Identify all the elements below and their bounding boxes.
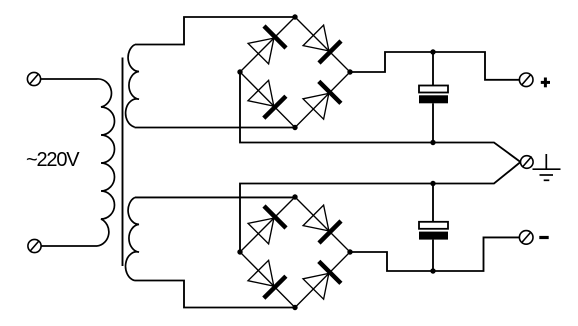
wire secondary2 top to bridge2 top (135, 196, 295, 198)
wire capacitor C2 bottom lead (432, 240, 434, 271)
terminal J4 (ground output) (521, 156, 534, 169)
bridge2 diamond edges (240, 197, 350, 308)
node bridge1 left (237, 69, 242, 74)
wire bridge1 left node down to upper ground rail (240, 72, 521, 162)
diode D5 (248, 206, 286, 244)
wire bridge1 right node to +V rail (350, 52, 520, 80)
transformer secondary winding top (126, 45, 139, 128)
wire lower ground rail to bridge2 left node (240, 162, 521, 252)
node bridge1 top (292, 14, 297, 19)
node C1 top (430, 49, 435, 54)
diode D8 (303, 261, 341, 299)
node bridge1 right (347, 69, 352, 74)
wire bottom AC input to primary (41, 245, 97, 247)
capacitor C1 (419, 86, 448, 104)
label ~220V text (26, 149, 78, 172)
node C2 top (430, 181, 435, 186)
terminal J5 (- output) (519, 231, 533, 245)
transformer primary winding (97, 79, 115, 246)
terminal J1 (AC input top) (27, 72, 40, 85)
wire capacitor C1 bottom lead (432, 103, 434, 142)
transformer secondary winding bottom (126, 197, 139, 280)
terminal J2 (AC input bottom) (28, 239, 41, 252)
wire secondary2 bottom to bridge2 bottom (135, 281, 296, 308)
node C2 bottom (430, 268, 435, 273)
wire secondary1 bottom to bridge1 bottom (135, 127, 296, 129)
node bridge1 bottom (292, 125, 297, 130)
label + (541, 78, 550, 88)
diode D3 (248, 80, 286, 118)
wire bridge2 right node to -V rail (350, 237, 520, 271)
node bridge2 top (292, 194, 297, 199)
label - (539, 236, 548, 239)
node C1 bottom (430, 140, 435, 145)
wire capacitor C1 top lead (432, 52, 434, 86)
diode D7 (248, 260, 286, 298)
diode D6 (303, 205, 341, 243)
capacitor C2 (419, 222, 448, 240)
diode D4 (303, 81, 341, 119)
diode D1 (248, 26, 286, 64)
transformer core (122, 58, 124, 267)
bridge1 diamond edges (240, 17, 350, 128)
diode D2 (303, 25, 341, 63)
wire capacitor C2 top lead (432, 184, 434, 222)
node bridge2 right (347, 249, 352, 254)
node bridge2 left (237, 249, 242, 254)
ground (533, 154, 561, 180)
terminal J3 (+ output) (519, 73, 533, 87)
node bridge2 bottom (292, 305, 297, 310)
wire top AC input to primary (41, 78, 97, 80)
wire secondary1 top to bridge1 top (135, 17, 295, 45)
